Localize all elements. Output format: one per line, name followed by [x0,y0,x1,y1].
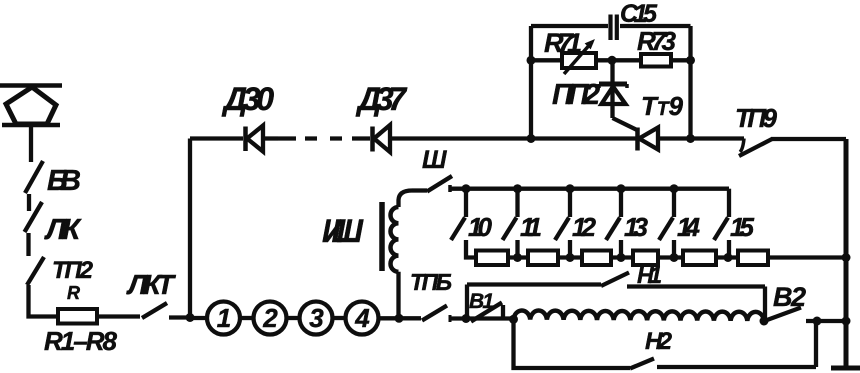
svg-text:Н2: Н2 [645,328,673,355]
svg-text:БВ: БВ [47,165,81,197]
svg-text:С15: С15 [620,0,658,28]
svg-text:14: 14 [677,212,701,242]
svg-text:11: 11 [520,212,542,242]
svg-text:R71: R71 [544,28,582,58]
svg-text:ТП2: ТП2 [52,257,94,284]
svg-text:ТП9: ТП9 [735,103,778,133]
svg-text:1: 1 [217,303,231,333]
svg-text:4: 4 [354,303,370,333]
svg-text:Ш: Ш [422,146,447,174]
svg-text:ТПБ: ТПБ [410,269,452,295]
svg-text:ЛК: ЛК [44,214,82,246]
svg-text:В2: В2 [773,282,806,312]
svg-text:15: 15 [730,212,755,242]
svg-text:3: 3 [309,303,324,333]
svg-text:ПП2: ПП2 [552,79,600,111]
svg-text:10: 10 [468,212,493,242]
svg-text:Д30: Д30 [221,81,274,117]
svg-text:ЛКТ: ЛКТ [126,269,177,300]
svg-text:Д37: Д37 [355,81,408,117]
svg-text:R73: R73 [637,26,677,56]
svg-text:R: R [67,283,80,303]
svg-text:R1–R8: R1–R8 [44,326,118,356]
svg-text:В1: В1 [469,290,494,313]
svg-text:13: 13 [624,212,649,242]
svg-text:ИШ: ИШ [322,213,364,249]
svg-text:2: 2 [262,303,278,333]
svg-text:12: 12 [572,212,597,242]
svg-text:Н1: Н1 [637,262,662,288]
svg-text:ТТ9: ТТ9 [641,91,684,121]
